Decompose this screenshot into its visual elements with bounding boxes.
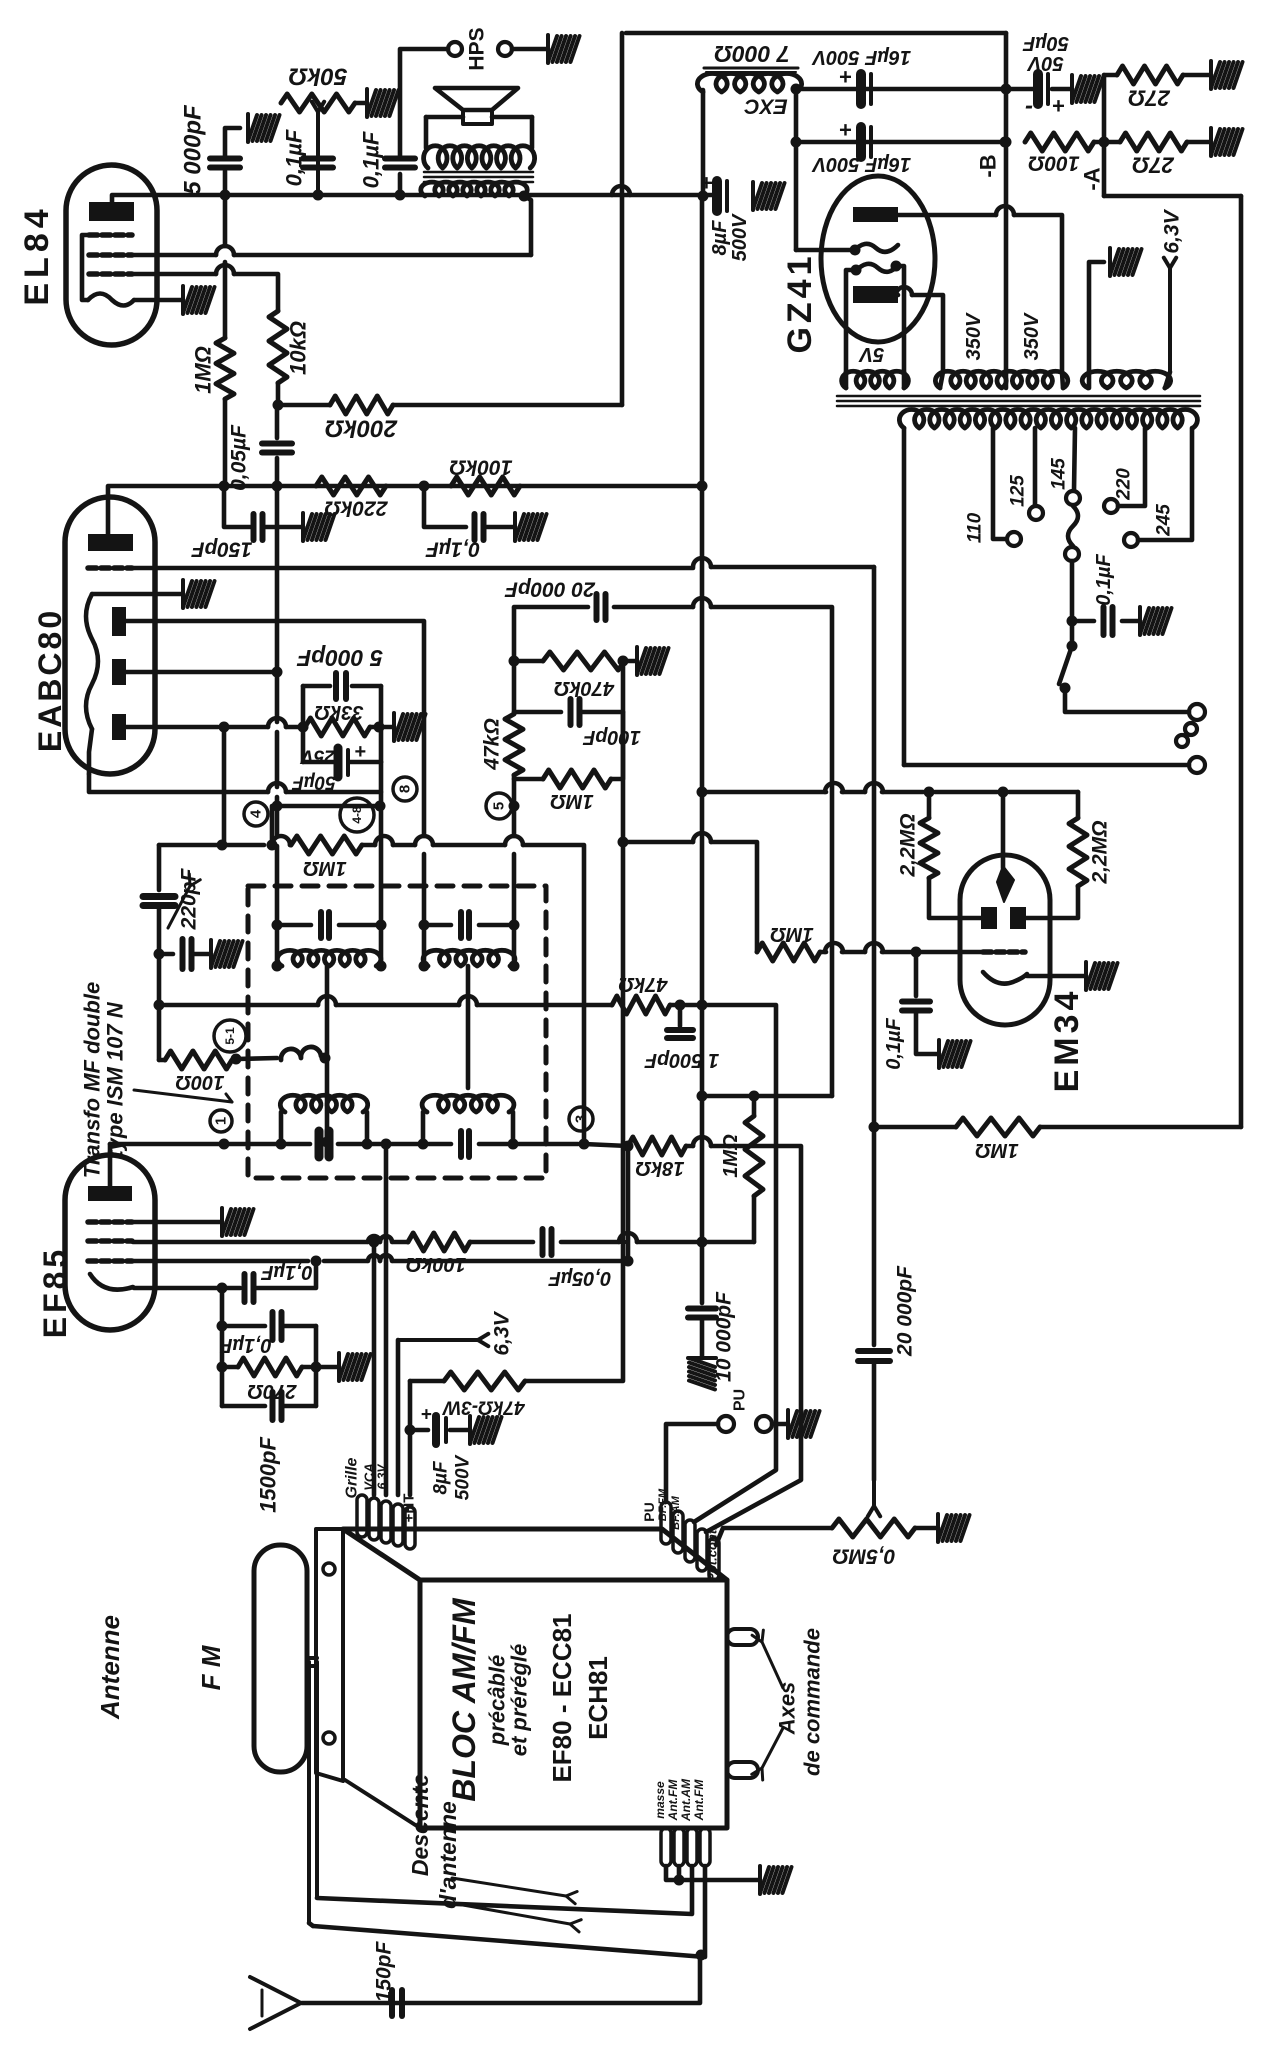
svg-text:5 000pF: 5 000pF [296, 645, 383, 671]
svg-text:350V: 350V [1021, 312, 1043, 360]
svg-text:5 000pF: 5 000pF [180, 104, 207, 195]
svg-text:0,5MΩ: 0,5MΩ [832, 1545, 895, 1568]
svg-text:BF.AM: BF.AM [670, 1495, 682, 1529]
svg-text:100kΩ: 100kΩ [406, 1253, 466, 1275]
svg-text:50V: 50V [1027, 52, 1064, 74]
svg-text:F M: F M [196, 1644, 226, 1690]
svg-text:1MΩ: 1MΩ [720, 1134, 742, 1178]
svg-text:+: + [839, 118, 852, 143]
svg-text:8: 8 [397, 785, 414, 793]
svg-text:10 000pF: 10 000pF [713, 1291, 736, 1382]
svg-text:1MΩ: 1MΩ [975, 1139, 1019, 1161]
svg-text:Antenne: Antenne [95, 1615, 125, 1720]
svg-text:-B: -B [976, 154, 1001, 177]
svg-text:+HT: +HT [401, 1494, 418, 1523]
svg-text:Axes: Axes [775, 1682, 800, 1736]
svg-text:1MΩ: 1MΩ [191, 346, 216, 394]
svg-text:500V: 500V [453, 1454, 474, 1500]
svg-text:100kΩ: 100kΩ [449, 456, 512, 479]
svg-text:-A: -A [1080, 167, 1105, 190]
svg-text:245: 245 [1154, 504, 1175, 537]
svg-text:0,1µF: 0,1µF [219, 1334, 271, 1356]
svg-text:0,1µF: 0,1µF [359, 131, 384, 188]
svg-text:ECH81: ECH81 [583, 1656, 613, 1740]
svg-text:0,1µF: 0,1µF [260, 1261, 312, 1283]
svg-text:0,1µF: 0,1µF [282, 129, 307, 186]
svg-text:2,2MΩ: 2,2MΩ [897, 813, 920, 877]
svg-text:18kΩ: 18kΩ [635, 1157, 684, 1179]
svg-text:220: 220 [1114, 468, 1135, 501]
svg-text:0,05µF: 0,05µF [548, 1267, 611, 1289]
svg-text:Ant.FM: Ant.FM [666, 1779, 680, 1822]
svg-text:47kΩ: 47kΩ [618, 973, 668, 995]
svg-text:Pot.cont.: Pot.cont. [705, 1526, 720, 1582]
svg-text:5: 5 [491, 802, 508, 810]
svg-text:Ant.FM: Ant.FM [692, 1779, 706, 1822]
svg-text:150pF: 150pF [190, 538, 252, 561]
svg-text:350V: 350V [963, 312, 985, 360]
svg-text:150pF: 150pF [373, 1940, 396, 2002]
svg-text:Transfo MF double: Transfo MF double [80, 982, 105, 1178]
svg-text:10kΩ: 10kΩ [286, 321, 311, 375]
svg-text:0,1µF: 0,1µF [1093, 553, 1115, 605]
svg-text:47kΩ: 47kΩ [481, 718, 504, 770]
svg-text:50kΩ: 50kΩ [288, 63, 347, 90]
svg-text:200kΩ: 200kΩ [325, 415, 398, 442]
svg-text:6,3V: 6,3V [491, 1310, 514, 1355]
svg-text:+: + [354, 741, 366, 763]
svg-text:3: 3 [573, 1115, 590, 1123]
svg-text:470kΩ: 470kΩ [554, 677, 615, 699]
svg-text:1MΩ: 1MΩ [303, 857, 347, 879]
svg-text:50µF: 50µF [291, 772, 336, 793]
svg-text:27Ω: 27Ω [1132, 153, 1175, 178]
svg-text:500V: 500V [729, 213, 751, 261]
svg-text:5-1: 5-1 [223, 1027, 237, 1045]
svg-text:0,05µF: 0,05µF [228, 424, 251, 491]
svg-text:GZ41: GZ41 [781, 252, 819, 353]
svg-text:EXC: EXC [744, 95, 788, 118]
svg-text:EF85: EF85 [37, 1246, 73, 1338]
svg-text:20 000pF: 20 000pF [894, 1265, 917, 1357]
svg-text:1 500pF: 1 500pF [644, 1049, 719, 1071]
svg-text:0,1µF: 0,1µF [425, 538, 480, 561]
svg-text:BLOC AM/FM: BLOC AM/FM [446, 1597, 482, 1802]
svg-text:33kΩ: 33kΩ [314, 701, 363, 723]
svg-text:+: + [420, 1405, 431, 1426]
svg-text:EL84: EL84 [18, 204, 56, 305]
svg-text:7 000Ω: 7 000Ω [714, 41, 790, 67]
svg-text:PU: PU [641, 1502, 657, 1521]
svg-text:125: 125 [1008, 475, 1029, 507]
svg-text:d'antenne: d'antenne [435, 1801, 461, 1909]
svg-text:27Ω: 27Ω [1128, 86, 1171, 111]
svg-text:+: + [1052, 94, 1065, 119]
svg-text:100pF: 100pF [582, 726, 641, 748]
svg-text:1500pF: 1500pF [256, 1437, 281, 1513]
svg-text:50µF: 50µF [1022, 32, 1069, 54]
svg-text:20 000pF: 20 000pF [504, 578, 596, 601]
svg-text:EABC80: EABC80 [32, 608, 68, 752]
svg-text:EF80 - ECC81: EF80 - ECC81 [547, 1613, 577, 1782]
svg-text:-: - [1025, 93, 1033, 120]
svg-text:masse: masse [653, 1781, 667, 1819]
svg-text:16µF 500V: 16µF 500V [811, 46, 911, 68]
svg-text:1: 1 [213, 1117, 230, 1125]
svg-text:0,1µF: 0,1µF [883, 1017, 905, 1069]
svg-text:47kΩ-3W: 47kΩ-3W [441, 1397, 525, 1418]
svg-text:8µF: 8µF [431, 1460, 452, 1495]
svg-text:et préréglé: et préréglé [507, 1644, 532, 1757]
svg-text:HPS: HPS [466, 27, 489, 70]
svg-text:16µF 500V: 16µF 500V [811, 153, 911, 175]
svg-text:4-8: 4-8 [350, 806, 364, 824]
svg-text:Grille: Grille [344, 1457, 361, 1498]
svg-text:de commande: de commande [800, 1628, 825, 1776]
svg-text:Descente: Descente [407, 1774, 433, 1876]
svg-text:220kΩ: 220kΩ [324, 497, 388, 520]
svg-text:1MΩ: 1MΩ [770, 923, 814, 945]
svg-text:PU: PU [732, 1389, 749, 1411]
svg-text:6,3V: 6,3V [1161, 208, 1184, 253]
svg-text:145: 145 [1049, 458, 1070, 490]
svg-text:4: 4 [248, 809, 265, 818]
svg-text:5V: 5V [858, 343, 884, 365]
svg-text:EM34: EM34 [1048, 988, 1086, 1093]
svg-text:25V: 25V [300, 746, 336, 767]
svg-text:8µF: 8µF [709, 220, 731, 256]
svg-text:Ant.AM: Ant.AM [679, 1778, 693, 1822]
svg-text:type ISM 107 N: type ISM 107 N [103, 1001, 128, 1157]
svg-text:100Ω: 100Ω [175, 1071, 224, 1093]
svg-text:2,2MΩ: 2,2MΩ [1089, 820, 1112, 884]
svg-text:110: 110 [965, 512, 986, 543]
svg-text:100Ω: 100Ω [1028, 152, 1079, 175]
svg-text:1MΩ: 1MΩ [550, 790, 594, 812]
